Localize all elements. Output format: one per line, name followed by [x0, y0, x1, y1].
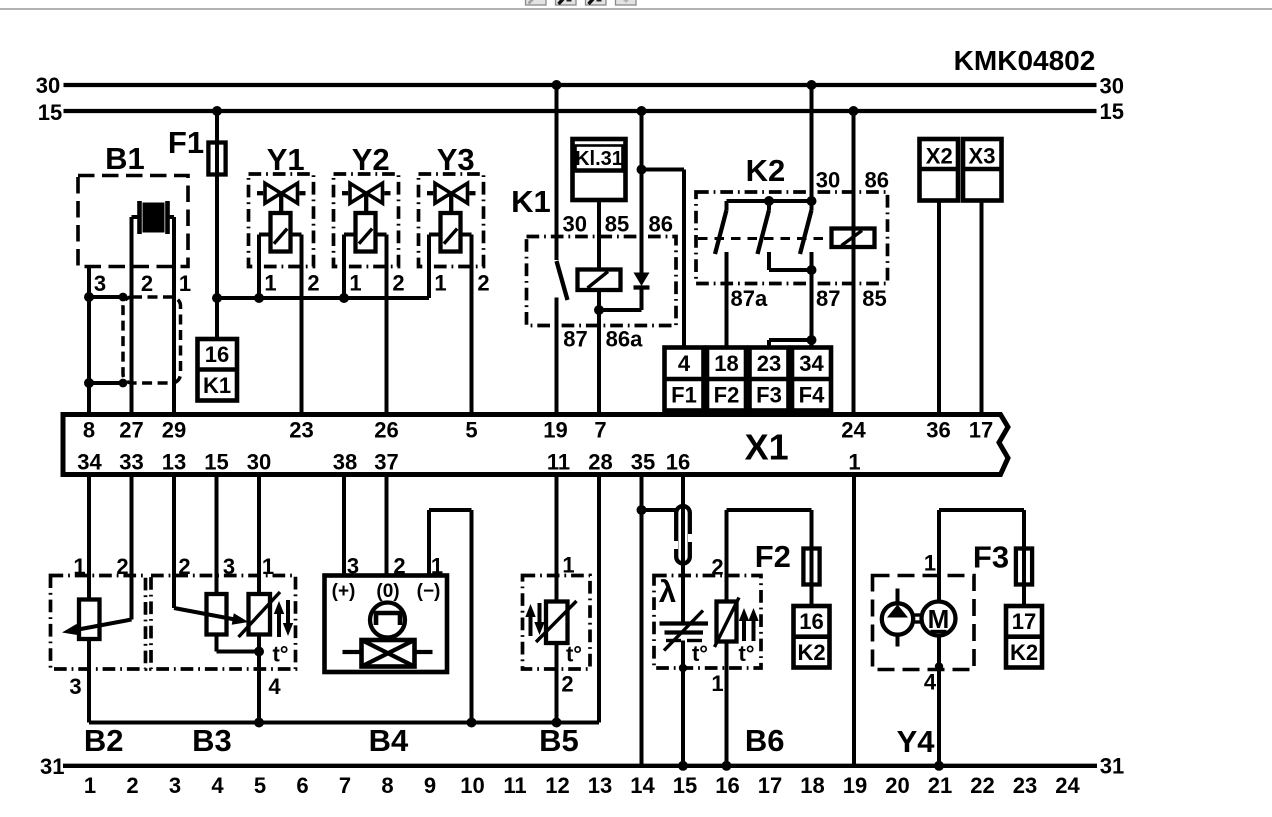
svg-text:1: 1	[262, 554, 274, 579]
svg-text:1: 1	[264, 270, 276, 295]
svg-text:23: 23	[289, 418, 313, 443]
svg-text:30: 30	[247, 450, 271, 475]
svg-text:2: 2	[126, 773, 138, 798]
svg-text:KMK04802: KMK04802	[954, 45, 1096, 76]
svg-text:12: 12	[545, 773, 569, 798]
svg-text:F1: F1	[168, 125, 204, 160]
relay K2 box (dash-dot)	[696, 192, 888, 284]
junction on bus 15 for F1	[212, 106, 222, 116]
svg-text:2: 2	[141, 271, 153, 296]
svg-text:31: 31	[1100, 754, 1124, 779]
svg-text:87a: 87a	[731, 286, 768, 311]
Y4 pump-motor coupling	[914, 613, 922, 616]
wire X1-13 to B3 pin2	[172, 475, 176, 609]
junction B4 pin1 on ground rail	[467, 718, 477, 728]
svg-text:11: 11	[547, 450, 570, 475]
B4 diaphragm circle	[370, 603, 405, 638]
wire lambda element to bus31	[681, 641, 685, 766]
terminal box 16/K2	[794, 606, 830, 668]
svg-text:3: 3	[347, 554, 359, 579]
B3 NTC element (pin1)	[249, 594, 271, 635]
junction B5 pin2 on ground rail	[552, 718, 562, 728]
wire B1 pin3 (shield) to X1-8	[87, 267, 91, 415]
Y2 valve stem	[364, 195, 368, 213]
B6 NTC element	[717, 602, 737, 642]
svg-text:B3: B3	[192, 723, 232, 758]
junction 86 branch to fuse 4/F1	[637, 165, 647, 175]
wire shield capsule tie to pin35 wire	[642, 508, 677, 512]
svg-text:3: 3	[169, 773, 181, 798]
svg-text:2: 2	[178, 554, 190, 579]
B1 piezo element	[143, 203, 165, 233]
svg-text:t°: t°	[692, 641, 708, 666]
svg-text:3: 3	[94, 271, 106, 296]
wire shield tie bottom	[89, 381, 123, 385]
svg-text:4: 4	[924, 670, 937, 695]
wire K2 86-85 through coil to X1-24	[852, 111, 856, 415]
junction K1 86a	[594, 305, 604, 315]
svg-text:M: M	[928, 604, 950, 634]
svg-text:13: 13	[588, 773, 612, 798]
svg-text:33: 33	[119, 450, 143, 475]
svg-text:F1: F1	[671, 383, 697, 408]
wire X1-15 to B3 pin3	[215, 475, 219, 595]
K2 relay coil	[832, 229, 875, 248]
wire Kl.31 to K1 coil (85)	[597, 200, 601, 270]
cable shield screen around B1 leads (dashed)	[123, 297, 181, 383]
Y3 valve stem	[449, 195, 453, 213]
svg-text:8: 8	[83, 418, 95, 443]
svg-text:X2: X2	[926, 144, 953, 169]
svg-text:t°: t°	[272, 642, 288, 667]
Y4 pump circle	[882, 603, 913, 634]
svg-text:(−): (−)	[417, 581, 441, 602]
svg-text:1: 1	[73, 554, 85, 579]
relay K1 box (dash-dot)	[527, 237, 677, 326]
svg-text:1: 1	[848, 450, 860, 475]
wire B3 resistor bottoms to pin4	[215, 635, 219, 652]
wire 86 branch to fuse box 4/F1	[642, 168, 685, 172]
svg-text:7: 7	[339, 773, 351, 798]
svg-text:F3: F3	[756, 383, 782, 408]
svg-text:B4: B4	[369, 723, 409, 758]
sensor B5 box (dash-dot)	[523, 576, 591, 670]
svg-text:15: 15	[1099, 99, 1123, 124]
svg-text:2: 2	[711, 555, 723, 580]
Y1 solenoid coil	[271, 213, 291, 252]
svg-text:17: 17	[758, 773, 782, 798]
wire Y1 pin1	[259, 233, 271, 237]
sensor B6 box (dash-dot)	[654, 576, 761, 669]
wire X1-33 to B2 pin2	[130, 475, 134, 620]
svg-text:30: 30	[36, 73, 60, 98]
svg-text:2: 2	[307, 270, 319, 295]
wire K2 contact bus	[727, 199, 812, 203]
svg-text:F3: F3	[973, 540, 1009, 575]
junction shield link on pin35 wire	[637, 505, 647, 515]
wire Y3 pin1	[429, 233, 441, 237]
junction valve feed at Y1 pin1	[254, 293, 264, 303]
svg-text:Y1: Y1	[267, 142, 305, 177]
junction B3 pin4 on ground rail	[254, 718, 264, 728]
svg-text:35: 35	[631, 450, 655, 475]
svg-text:36: 36	[926, 418, 950, 443]
svg-text:17: 17	[969, 418, 993, 443]
svg-text:11: 11	[503, 773, 526, 798]
svg-text:22: 22	[970, 773, 994, 798]
svg-text:1: 1	[349, 270, 361, 295]
svg-text:5: 5	[465, 418, 477, 443]
svg-text:3: 3	[223, 554, 235, 579]
bus 30 (battery +)	[64, 83, 1097, 87]
svg-text:15: 15	[38, 100, 62, 125]
wire B6 pin1 to bus31	[725, 642, 729, 766]
svg-text:B1: B1	[105, 141, 145, 176]
svg-text:1: 1	[179, 271, 191, 296]
svg-text:1: 1	[711, 671, 723, 696]
svg-text:2: 2	[561, 672, 573, 697]
junction valve feed at Y2 pin1	[339, 293, 349, 303]
svg-text:(+): (+)	[332, 581, 356, 602]
svg-text:13: 13	[162, 450, 186, 475]
wire B1 pin2 lead	[132, 215, 140, 219]
svg-text:1: 1	[434, 270, 446, 295]
wire X1-38 to B4 pin3	[342, 475, 346, 576]
K1 relay coil	[578, 270, 621, 291]
svg-text:18: 18	[714, 351, 738, 376]
svg-text:86: 86	[864, 168, 888, 193]
B4 valve rectangle with cross	[362, 640, 415, 667]
svg-text:85: 85	[605, 212, 629, 237]
toolbar button 3 (zoom out)	[586, 0, 607, 5]
wire Y3 pin2	[461, 233, 472, 237]
junction on bus 15 for K1-86	[637, 106, 647, 116]
sensor B3 box (dash-dot)	[151, 576, 296, 670]
svg-text:28: 28	[588, 450, 612, 475]
wire bus30 to K2-30	[810, 85, 814, 201]
junction on bus 30 for K2-30	[807, 80, 817, 90]
bus 31 (ground)	[63, 764, 1097, 768]
wire Y4 pin4 to bus31	[937, 636, 941, 766]
fuse F1 body	[208, 143, 225, 175]
fuse F2 body	[803, 549, 819, 585]
fuse terminal box 34/F4	[792, 348, 831, 411]
wire B1 pin1 lead	[168, 215, 175, 219]
junction Y4 pin4 at box border	[935, 662, 943, 670]
junction lambda housing at box border	[679, 664, 687, 672]
svg-text:F2: F2	[714, 383, 740, 408]
connector X2	[920, 139, 959, 201]
Y2 valve symbol (bowtie)	[350, 183, 366, 203]
svg-text:16: 16	[799, 609, 823, 634]
svg-text:27: 27	[119, 418, 143, 443]
B5 NTC element	[546, 602, 568, 644]
svg-text:19: 19	[843, 773, 867, 798]
Y1 valve symbol (bowtie)	[265, 183, 281, 203]
solenoid valve Y2 box (dash-dot)	[334, 174, 399, 267]
svg-text:4: 4	[268, 674, 281, 699]
K1 switch blade	[557, 261, 568, 300]
wire K1 86a to X1-7	[597, 310, 601, 415]
sensor B2 box (dash-dot)	[51, 576, 146, 670]
svg-text:1: 1	[924, 551, 936, 576]
svg-text:15: 15	[204, 450, 228, 475]
svg-text:31: 31	[40, 754, 64, 779]
svg-text:37: 37	[374, 450, 398, 475]
svg-text:23: 23	[1013, 773, 1037, 798]
junction lambda wire on bus31	[678, 761, 688, 771]
junction F1 output to valve feed	[212, 293, 222, 303]
junction 87 to fuses 23/F3 and 34/F4	[807, 335, 817, 345]
B2 inductive sensor element	[79, 600, 100, 640]
toolbar button 4	[616, 0, 637, 5]
svg-text:K2: K2	[797, 640, 825, 665]
svg-text:85: 85	[862, 286, 886, 311]
terminal box Kl.31	[573, 139, 626, 200]
wire X3 to X1-17	[980, 199, 984, 415]
svg-text:19: 19	[543, 418, 567, 443]
B6 probe diagonal	[664, 611, 703, 651]
wire X1-30 to B3 pin1	[257, 475, 261, 595]
B3 temperature arrows	[277, 610, 281, 638]
knock sensor B1 housing (dashed box)	[78, 176, 188, 267]
svg-text:87: 87	[816, 286, 840, 311]
svg-text:4: 4	[678, 351, 691, 376]
svg-text:(0): (0)	[376, 581, 399, 602]
svg-text:26: 26	[374, 418, 398, 443]
wire X1-11 to B5 pin1	[555, 475, 559, 602]
svg-text:λ: λ	[659, 574, 676, 609]
wire B6 pin2 to fuse F2	[725, 510, 729, 602]
junction on bus 30 for K1-30	[552, 80, 562, 90]
B6 heater arrows	[742, 617, 746, 642]
solenoid valve Y1 box (dash-dot)	[249, 174, 314, 267]
svg-text:34: 34	[799, 351, 824, 376]
svg-text:29: 29	[162, 418, 186, 443]
toolbar separator line	[0, 8, 1272, 10]
fuse terminal box 23/F3	[750, 348, 789, 411]
svg-text:K2: K2	[746, 153, 786, 188]
wire bus15 to K1 diode (86)	[640, 111, 644, 273]
B6 probe element plates	[660, 621, 709, 625]
wire valve feed rail	[217, 296, 429, 300]
wire X1-28 ground return riser	[597, 475, 601, 723]
fuse terminal box 18/F2	[707, 348, 746, 411]
svg-text:17: 17	[1012, 609, 1036, 634]
svg-text:16: 16	[205, 342, 229, 367]
toolbar button 1 (zoom)	[526, 0, 547, 5]
svg-text:t°: t°	[738, 641, 754, 666]
K2 switch 2-3 bottom link	[769, 268, 812, 272]
svg-text:34: 34	[77, 450, 102, 475]
svg-text:Y3: Y3	[437, 142, 475, 177]
wire Y2 pin1	[344, 233, 356, 237]
junction B6 pin1 on bus31	[722, 761, 732, 771]
wire Y2 pin2	[376, 233, 387, 237]
svg-text:X3: X3	[969, 144, 996, 169]
terminal box 17/K2	[1006, 606, 1042, 668]
svg-text:20: 20	[885, 773, 909, 798]
K1 suppression diode	[634, 273, 650, 287]
svg-text:24: 24	[1055, 773, 1080, 798]
Y3 solenoid coil	[441, 213, 461, 252]
svg-text:4: 4	[211, 773, 224, 798]
svg-text:7: 7	[594, 418, 606, 443]
junction on bus 15 for K2-86	[849, 106, 859, 116]
wire X1-35 shield ground to bus31	[640, 475, 644, 766]
wire X1-16 lambda signal	[681, 475, 685, 624]
svg-text:Kl.31: Kl.31	[575, 148, 623, 170]
fuel pump Y4 box (dashed)	[873, 576, 975, 670]
svg-text:Y4: Y4	[897, 724, 936, 759]
actuator B4 box	[325, 576, 448, 673]
svg-text:1: 1	[562, 553, 574, 578]
svg-text:2: 2	[116, 554, 128, 579]
svg-text:30: 30	[562, 212, 586, 237]
svg-text:2: 2	[392, 270, 404, 295]
svg-text:23: 23	[757, 351, 781, 376]
svg-text:30: 30	[816, 168, 840, 193]
svg-text:K1: K1	[511, 184, 551, 219]
svg-text:1: 1	[84, 773, 96, 798]
B2 adjustment arrow	[72, 620, 131, 631]
wire Y1 pin2	[291, 233, 302, 237]
fuse terminal box 4/F1	[665, 348, 704, 411]
svg-text:14: 14	[630, 773, 655, 798]
wire B5 pin2 to ground rail	[555, 643, 559, 723]
wire K1 coil bottom to 86a junction	[597, 290, 601, 310]
Y1 valve stem	[279, 195, 283, 213]
svg-text:1: 1	[431, 554, 443, 579]
cable shield capsule on lambda wire	[676, 506, 690, 564]
terminal box 16/K1	[198, 339, 238, 401]
svg-text:87: 87	[563, 327, 587, 352]
svg-text:2: 2	[393, 554, 405, 579]
wire Y4 pin1 to fuse F3	[937, 510, 941, 602]
wire shield tie top	[89, 295, 123, 299]
solenoid valve Y3 box (dash-dot)	[419, 174, 484, 267]
bus 15 (ignition +)	[64, 109, 1097, 113]
Y4 motor circle M	[922, 602, 956, 636]
connector X3	[963, 139, 1002, 201]
B5 temperature arrows	[529, 613, 533, 637]
svg-text:9: 9	[424, 773, 436, 798]
K2 switch 2	[767, 201, 771, 210]
wire K1 coil/diode bottom link	[599, 308, 642, 312]
svg-text:16: 16	[715, 773, 739, 798]
svg-text:X1: X1	[745, 427, 789, 468]
wire B2 pin3 to ground rail	[87, 639, 91, 723]
svg-text:21: 21	[928, 773, 952, 798]
wire sensor ground rail to X1-28	[89, 721, 599, 725]
wire X2 to X1-36	[937, 199, 941, 415]
svg-text:86: 86	[648, 212, 672, 237]
svg-text:86a: 86a	[606, 327, 643, 352]
svg-text:8: 8	[381, 773, 393, 798]
svg-text:B5: B5	[539, 723, 579, 758]
svg-text:Y2: Y2	[352, 142, 390, 177]
Y2 solenoid coil	[356, 213, 376, 252]
svg-text:5: 5	[254, 773, 266, 798]
wire X1-34 to B2 pin1	[87, 475, 91, 600]
svg-text:24: 24	[841, 418, 866, 443]
svg-text:18: 18	[800, 773, 824, 798]
svg-text:F4: F4	[799, 383, 825, 408]
svg-text:F2: F2	[755, 539, 791, 574]
Y3 valve symbol (bowtie)	[435, 183, 451, 203]
wire K2-87 down to fuse branch	[810, 252, 814, 340]
toolbar button 2 (zoom in)	[556, 0, 577, 5]
svg-text:B6: B6	[745, 723, 785, 758]
svg-text:t°: t°	[566, 642, 582, 667]
B3 wiper arrow from pin2	[174, 608, 238, 620]
svg-text:30: 30	[1099, 73, 1123, 98]
svg-text:K1: K1	[203, 373, 231, 398]
wire K1-87 to X1-19	[555, 298, 559, 415]
svg-text:38: 38	[333, 450, 357, 475]
svg-text:10: 10	[460, 773, 484, 798]
wire X1-1 to bus31	[852, 475, 856, 766]
K2 switch 1 (87a)	[725, 201, 729, 210]
svg-text:B2: B2	[84, 723, 124, 758]
svg-text:3: 3	[69, 674, 81, 699]
K2 switch 3 (87)	[810, 201, 814, 210]
B3 resistor element (pin3)	[207, 594, 227, 635]
wire bus15 to F1 to terminal 16/K1	[215, 111, 219, 339]
svg-text:2: 2	[477, 270, 489, 295]
fuse F3 body	[1016, 549, 1032, 585]
wire bus30 to K1-30	[555, 85, 559, 260]
svg-text:16: 16	[666, 450, 690, 475]
wire B4 pin1 loop to ground rail	[427, 510, 431, 576]
svg-text:K2: K2	[1010, 640, 1038, 665]
control unit connector X1 band	[63, 415, 1008, 475]
junction Y4 pin4 on bus31	[934, 761, 944, 771]
K2 mechanical linkage (dashed)	[698, 237, 832, 240]
wire X1-37 to B4 pin2	[385, 475, 389, 576]
svg-text:6: 6	[296, 773, 308, 798]
svg-text:15: 15	[673, 773, 697, 798]
